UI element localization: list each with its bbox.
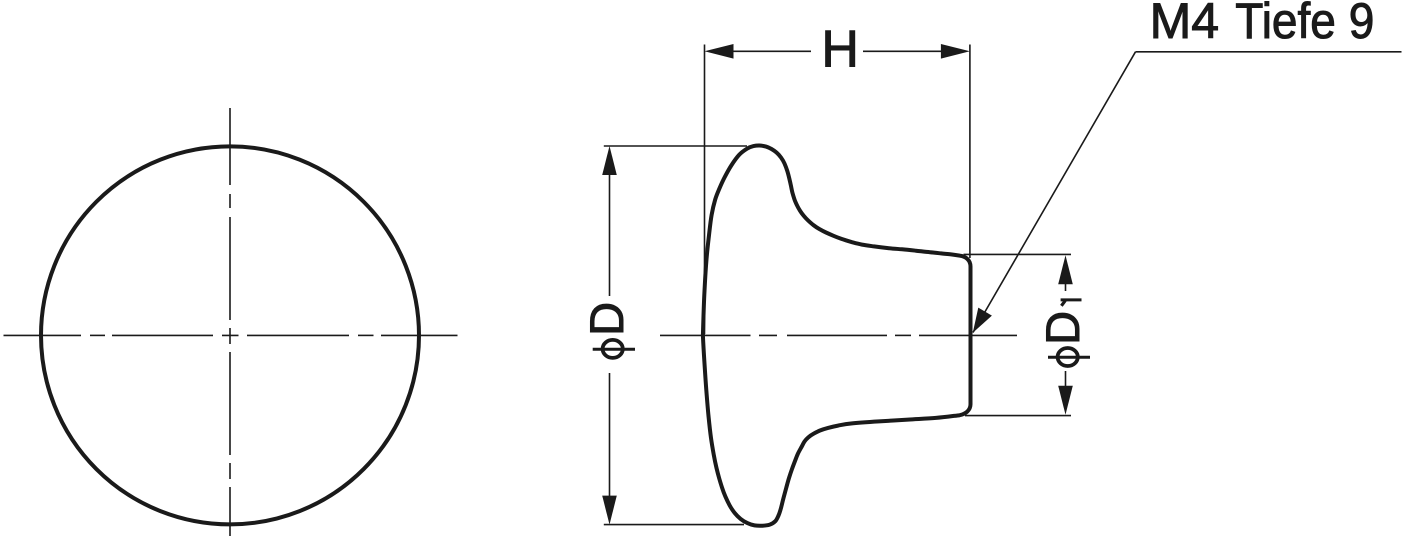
svg-text:D: D [580, 302, 633, 336]
side view horizontal centerline [660, 334, 1017, 336]
leader arrowhead [973, 308, 992, 333]
side view knob profile outline [703, 145, 971, 525]
front view circle (knob face, diameter D) [41, 146, 419, 524]
dimension H: extension lines [705, 45, 970, 335]
dimension phiD1: subscript 1 (drawn strokes) [1061, 300, 1082, 306]
dimension phiD1: arrowheads [1058, 255, 1073, 415]
dimension phiD: arrowheads [602, 146, 617, 525]
dimension phiD: phi symbol drawn [593, 340, 635, 358]
dimension H: dimension line with gap for text [733, 50, 942, 52]
svg-text:D: D [1036, 311, 1089, 345]
dimension phiD1: phi symbol drawn [1048, 348, 1090, 366]
svg-text:H: H [821, 21, 859, 79]
dimension H: arrowheads [705, 44, 970, 59]
dimension phiD1: dimension line stubs [1065, 284, 1067, 387]
svg-text:M4: M4 [1150, 0, 1219, 49]
front view horizontal centerline [4, 334, 458, 336]
dimension phiD: dimension line with gap for text [609, 174, 611, 497]
dimension phiD: extension lines [604, 146, 747, 525]
front view vertical centerline [229, 108, 231, 536]
svg-text:Tiefe 9: Tiefe 9 [1235, 0, 1374, 49]
dimension phiD1: extension lines [964, 254, 1072, 415]
leader line for M4 Tiefe 9 [973, 52, 1402, 333]
